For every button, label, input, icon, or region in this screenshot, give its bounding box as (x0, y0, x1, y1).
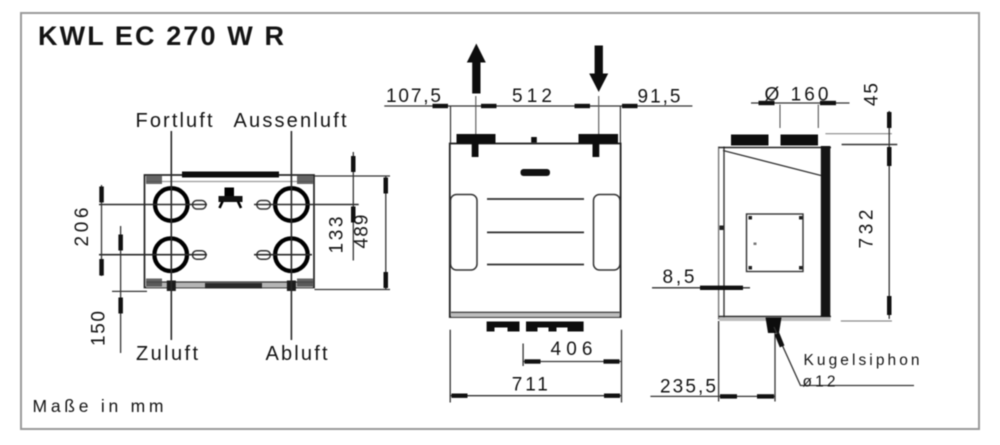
left view: corner mark top-left (146, 176, 162, 184)
centerline horizontal bottom row left (99, 254, 207, 256)
base strip notch c (557, 328, 568, 332)
svg-text:91,5: 91,5 (638, 87, 681, 108)
dim 160 ext right (817, 105, 819, 129)
dim 406 line (523, 361, 621, 363)
dim 8,5 tick (700, 286, 743, 290)
dim 45 tick bottom / 732 tick top (887, 147, 892, 166)
arrow up (Fortluft) (467, 44, 486, 94)
side view: door inner line (723, 147, 725, 320)
base strip notch a (495, 328, 508, 332)
dim 45 tick top (887, 112, 892, 128)
port circle Zuluft (154, 238, 187, 271)
top dim ext left edge (450, 106, 452, 143)
side view: top edge (719, 147, 831, 149)
dim 711 line (450, 395, 621, 397)
dimension 150 ext line bottom (112, 290, 147, 292)
svg-text:133: 133 (327, 217, 348, 254)
left view: corner mark bottom-right (297, 279, 313, 287)
svg-text:150: 150 (89, 311, 110, 346)
slot right of Zuluft (193, 251, 207, 260)
dimension 206 tick bottom (99, 259, 104, 276)
front view: body outer rect (450, 144, 621, 318)
panel corner dot 4 (799, 266, 803, 270)
side view: drain fitting (766, 318, 782, 334)
svg-text:Abluft: Abluft (266, 343, 328, 365)
side view: inspection panel (747, 214, 804, 272)
dimension 150 line (120, 226, 122, 353)
ext line unit bottom right (841, 320, 892, 322)
left view: inner top wall line (146, 181, 313, 183)
centerline vertical Aussenluft/Abluft (290, 131, 292, 340)
left view: corner mark bottom-left (146, 279, 162, 287)
svg-text:Fortluft: Fortluft (136, 110, 213, 132)
port circle Aussenluft (275, 188, 308, 221)
top dim ext right edge (619, 106, 621, 143)
svg-text:8,5: 8,5 (663, 267, 695, 288)
dim 235,5 ext line left (718, 321, 720, 402)
port circle Abluft (275, 238, 308, 271)
svg-text:406: 406 (551, 339, 593, 360)
dim 711 tick left (452, 394, 468, 398)
front view: flange right (579, 134, 619, 144)
side view: right edge black band (821, 146, 831, 317)
side view: hinge dot (720, 226, 724, 231)
side view: flange front (781, 135, 819, 146)
dim 711 ext line right (621, 330, 623, 403)
dim 45/732 vertical line (888, 111, 890, 319)
dimension 206 line (101, 185, 103, 276)
front view: seam line 2 (487, 231, 584, 233)
slot left of Abluft (257, 251, 271, 260)
slot right of Fortluft (193, 201, 207, 210)
kugelsiphon leader line (774, 327, 914, 386)
top dim tick at 620 (622, 104, 638, 108)
svg-text:KWL EC 270 W R: KWL EC 270 W R (38, 21, 284, 51)
left view: bottom double wall band (146, 283, 313, 288)
ext line unit top right (315, 175, 391, 177)
svg-text:Zuluft: Zuluft (136, 343, 198, 365)
dimension 489 tick top (384, 178, 389, 194)
dim 235,5 tick right (757, 394, 774, 398)
dim 711 ext line left (449, 330, 451, 403)
front view: bottom band (451, 313, 620, 317)
front view: duct stub left (472, 144, 479, 158)
svg-text:512: 512 (512, 86, 552, 107)
dim 160 tick left (759, 101, 775, 105)
svg-text:ø12: ø12 (803, 374, 836, 391)
front view: seam line 1 (487, 198, 584, 200)
dimension 489 line (385, 176, 387, 290)
svg-text:45: 45 (862, 83, 883, 106)
top dim ext port right (598, 96, 600, 134)
panel corner dot 2 (799, 216, 803, 220)
front view: top centre marker (531, 137, 537, 143)
side view: flange rear (731, 135, 769, 146)
svg-text:206: 206 (72, 208, 93, 247)
dimension 206 tick top (99, 187, 104, 203)
side view: bottom edge (719, 316, 831, 318)
top dim tick at 449 (433, 104, 449, 108)
small cable gland symbol top centre (219, 188, 243, 209)
svg-text:Kugelsiphon: Kugelsiphon (804, 352, 920, 369)
dimension 150 tick bottom (118, 298, 123, 314)
bottom band dash right (287, 281, 296, 292)
top dim tick at 599 (575, 104, 591, 108)
dim 406 tick left (525, 359, 541, 363)
svg-text:711: 711 (512, 375, 548, 396)
dimension 133 line (352, 152, 354, 261)
ext line unit top right (842, 144, 898, 146)
svg-text:Aussenluft: Aussenluft (234, 110, 347, 132)
dim 235,5 tick left (720, 394, 737, 398)
side view: sloped line (723, 151, 821, 176)
dim 160 ext left (779, 105, 781, 129)
dim 406 ext line left (522, 344, 524, 367)
top dim ext port left (475, 96, 477, 134)
front view: duct stub right (593, 144, 600, 158)
base strip notch centre (520, 322, 527, 332)
base strip notch b (538, 328, 549, 332)
bottom band dash left (167, 281, 176, 292)
front view: flange left (457, 134, 496, 144)
dim 235,5 line (650, 395, 775, 397)
front view: bottom inner line (451, 311, 620, 313)
dimension 150 tick top (118, 235, 123, 251)
left view: thick top bar (182, 172, 279, 178)
arrow down (Aussenluft) (589, 46, 608, 93)
dimension 489 tick bottom (384, 272, 389, 288)
dim 8,5 line (652, 287, 750, 289)
front view: seam line 3 (487, 264, 584, 266)
dim 160 line (751, 102, 850, 104)
side view: bottom band (720, 317, 831, 321)
svg-text:235,5: 235,5 (660, 377, 716, 398)
centerline horizontal top row right (254, 204, 359, 206)
centerline vertical Fortluft/Zuluft (170, 131, 172, 340)
svg-text:489: 489 (352, 215, 373, 249)
left view: thick bottom bar (205, 283, 262, 289)
front view: logo plate (521, 169, 551, 176)
svg-text:107,5: 107,5 (386, 86, 441, 107)
panel corner dot 1 (749, 216, 753, 220)
slot left of Aussenluft (257, 201, 271, 210)
side view: door outer line (718, 147, 720, 320)
centerline horizontal top row left (99, 204, 207, 206)
dim 235,5 ext line right (774, 333, 776, 402)
svg-text:732: 732 (857, 210, 878, 249)
top dimension line (384, 105, 692, 107)
left view: body outer rect (145, 175, 315, 288)
port circle Fortluft (155, 188, 188, 221)
left view: bottom inner line (146, 281, 313, 283)
dimension 133 tick bottom (351, 207, 356, 223)
dim 406 tick right (604, 359, 620, 363)
left view: corner mark top-right (297, 176, 313, 184)
dim 160 tick right (820, 101, 836, 105)
front view: base strip (487, 322, 584, 332)
front view: handle left (451, 195, 478, 271)
dim 732 tick bottom (887, 296, 892, 315)
top dim tick at 475 (481, 104, 497, 108)
kugelsiphon leader arrow (775, 333, 785, 348)
dimension 133 tick top (351, 156, 356, 172)
panel centre mark (754, 243, 757, 246)
centerline horizontal bottom row right (254, 254, 312, 256)
front view: handle right (594, 195, 621, 271)
ext line flange top right (825, 133, 892, 135)
dim 711 tick right (604, 394, 620, 398)
panel corner dot 3 (749, 266, 753, 270)
ext line unit bottom right (315, 289, 391, 291)
